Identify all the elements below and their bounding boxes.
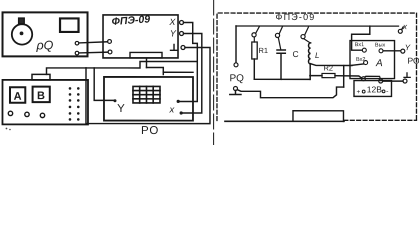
wire L to amp input 2 bbox=[311, 64, 352, 66]
wire module gnd loop bbox=[86, 47, 210, 123]
input Vx1 label bbox=[355, 42, 364, 48]
inductor L bbox=[309, 43, 311, 64]
svg-text:ρQ: ρQ bbox=[36, 38, 54, 52]
output jack bbox=[379, 49, 383, 53]
Y terminal jack bbox=[401, 49, 405, 53]
svg-text:Вх1: Вх1 bbox=[355, 42, 364, 48]
wire inside to Vx2 jack bbox=[352, 64, 364, 66]
svg-text:РО: РО bbox=[408, 56, 419, 66]
resistor R1 bbox=[252, 42, 268, 59]
top bus wire bbox=[236, 25, 398, 27]
label Y (module) bbox=[170, 28, 177, 38]
button B bbox=[33, 87, 50, 103]
label X (module) bbox=[168, 17, 176, 27]
module FPE-09 box bbox=[103, 15, 178, 58]
page divider line bbox=[213, 0, 215, 145]
svg-text:12В: 12В bbox=[367, 84, 382, 94]
switch S3 bbox=[301, 27, 310, 43]
wire bus to Vx1 bbox=[352, 26, 370, 50]
module X Y gnd terminals bbox=[180, 20, 186, 49]
module input terminals bbox=[108, 40, 112, 54]
label FPE-09 bbox=[111, 13, 150, 28]
wire branch to oscilloscope Y bbox=[94, 68, 113, 100]
svg-text:L: L bbox=[315, 51, 319, 60]
svg-text:X: X bbox=[168, 17, 176, 27]
svg-text:-: - bbox=[386, 86, 389, 95]
svg-text:Y: Y bbox=[170, 28, 177, 38]
counter top tab bbox=[32, 74, 50, 80]
svg-text:R2: R2 bbox=[323, 64, 333, 73]
amplifier A box bbox=[350, 41, 395, 79]
label A (amplifier) bbox=[375, 58, 383, 69]
oscilloscope X input dots bbox=[177, 100, 183, 115]
ground symbol (module) bbox=[171, 44, 178, 50]
solid bottom segment bbox=[225, 120, 344, 122]
svg-text:+: + bbox=[356, 89, 360, 96]
label x (oscilloscope) bbox=[168, 104, 175, 115]
input Vx2 label bbox=[356, 57, 365, 63]
title FPE-09 bbox=[276, 12, 316, 22]
label C bbox=[293, 49, 299, 59]
input Vx2 jack bbox=[364, 61, 368, 65]
wire module X to oscilloscope X1 bbox=[180, 22, 197, 101]
svg-text:Вых: Вых bbox=[375, 42, 386, 48]
12V jumper link bbox=[361, 76, 382, 83]
bottom connector bump bbox=[293, 111, 344, 122]
generator display window bbox=[60, 18, 79, 32]
generator PQ box bbox=[3, 12, 88, 56]
svg-text:PQ: PQ bbox=[229, 73, 244, 84]
cable from module connector down bbox=[146, 58, 148, 67]
switch S2 bbox=[275, 27, 282, 50]
capacitor C bbox=[277, 50, 285, 53]
svg-text:C: C bbox=[293, 49, 299, 59]
dashed enclosure border (left, top, right) bbox=[217, 13, 417, 121]
knob bbox=[12, 24, 32, 44]
left jack (bus) bbox=[234, 63, 238, 67]
wire output to Y terminal bbox=[383, 50, 401, 52]
stray specks bbox=[6, 128, 11, 131]
label Y (to oscilloscope) bbox=[405, 43, 411, 52]
gnd terminal jack bbox=[403, 79, 407, 83]
switch S1 bbox=[252, 27, 259, 42]
resistor R2 bbox=[310, 64, 335, 78]
cable wire W1 (counter tab to right channel) bbox=[46, 61, 196, 74]
module bottom connector bbox=[130, 52, 162, 58]
wire R2 to 12V jumper bbox=[335, 76, 362, 78]
wire R1 bottom bbox=[253, 59, 255, 79]
oscilloscope screen grid bbox=[133, 86, 160, 103]
x terminal jack bbox=[398, 27, 403, 33]
label RO (oscilloscope) bbox=[141, 125, 159, 137]
dashed bottom right segment bbox=[344, 119, 417, 121]
knob pointer bbox=[19, 18, 25, 24]
label PQ (generator) bbox=[36, 38, 54, 52]
bottom node wire bbox=[254, 78, 310, 80]
cable wire to right channel (lower) bbox=[163, 71, 193, 73]
12V contents bbox=[356, 84, 389, 96]
wire vertical junction (R2 node) bbox=[343, 66, 345, 88]
wire generator to module (upper) bbox=[79, 42, 108, 43]
label x (to oscilloscope) bbox=[402, 22, 408, 31]
label PQ (input) bbox=[229, 73, 244, 84]
oscilloscope Y input dot bbox=[113, 99, 116, 102]
cable shelf to oscilloscope top bbox=[146, 67, 163, 74]
label Y (oscilloscope) bbox=[117, 103, 125, 115]
counter knobs bbox=[8, 111, 44, 117]
svg-text:ФПЭ-09: ФПЭ-09 bbox=[111, 13, 150, 28]
input Vx1 jack bbox=[362, 48, 366, 52]
PQ input jack bbox=[230, 87, 241, 95]
counter dot grid bbox=[69, 87, 80, 121]
svg-text:B: B bbox=[37, 90, 45, 102]
svg-text:РО: РО bbox=[141, 125, 159, 137]
svg-text:x: x bbox=[168, 104, 175, 115]
wire generator to module (lower) bbox=[79, 51, 108, 54]
button A bbox=[10, 87, 25, 103]
wire bus to left jack bbox=[235, 26, 237, 63]
wire C bottom bbox=[280, 53, 282, 79]
wire module Y to oscilloscope X2 bbox=[183, 33, 202, 113]
svg-text:R1: R1 bbox=[259, 46, 269, 55]
wire jumper to gnd terminal bbox=[383, 80, 403, 82]
svg-text:Y: Y bbox=[117, 103, 125, 115]
gnd symbol (right) bbox=[404, 73, 410, 78]
wire PQ input run bbox=[237, 87, 343, 98]
svg-text:A: A bbox=[375, 58, 383, 69]
generator output terminals bbox=[75, 41, 79, 55]
label RO (to oscilloscope) bbox=[408, 56, 419, 66]
label L bbox=[315, 51, 319, 60]
svg-text:Y: Y bbox=[405, 43, 411, 52]
12V supply box bbox=[354, 81, 392, 97]
svg-text:ФПЭ-09: ФПЭ-09 bbox=[276, 12, 316, 22]
counter box (A/B device) bbox=[2, 80, 88, 125]
output Vyx label bbox=[375, 42, 386, 48]
svg-text:x: x bbox=[402, 22, 408, 31]
svg-text:A: A bbox=[14, 91, 22, 103]
oscilloscope box bbox=[104, 77, 193, 121]
wire L bottom to node bbox=[309, 64, 311, 80]
